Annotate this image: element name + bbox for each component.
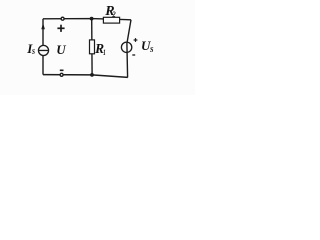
- wire top: [43, 19, 131, 20]
- voltage source U_S circle: [121, 42, 131, 52]
- resistor R1 body: [90, 40, 95, 54]
- svg-text:U: U: [56, 42, 66, 57]
- node junction bottom R1 (filled dot): [90, 73, 94, 77]
- resistor R2 body: [103, 17, 119, 23]
- node junction top R1 (filled dot): [90, 17, 94, 21]
- minus sign of U: [60, 69, 64, 71]
- svg-text:1: 1: [103, 47, 106, 57]
- current source I_S arrow: [41, 23, 45, 29]
- current source I_S bar: [39, 49, 49, 51]
- svg-text:S: S: [32, 47, 35, 56]
- node top terminal (open dot): [61, 17, 64, 20]
- wire R1 branch: [91, 19, 93, 75]
- wire bottom: [43, 75, 128, 78]
- minus sign of U_S: [132, 54, 135, 56]
- wire right branch: [127, 20, 131, 78]
- node bottom terminal (open dot): [60, 73, 63, 76]
- svg-text:2: 2: [112, 10, 116, 19]
- svg-text:S: S: [150, 45, 154, 54]
- plus sign of U_S: [134, 38, 138, 42]
- wire left: [42, 19, 44, 75]
- current source I_S circle: [38, 45, 48, 55]
- plus sign of U: [57, 25, 64, 32]
